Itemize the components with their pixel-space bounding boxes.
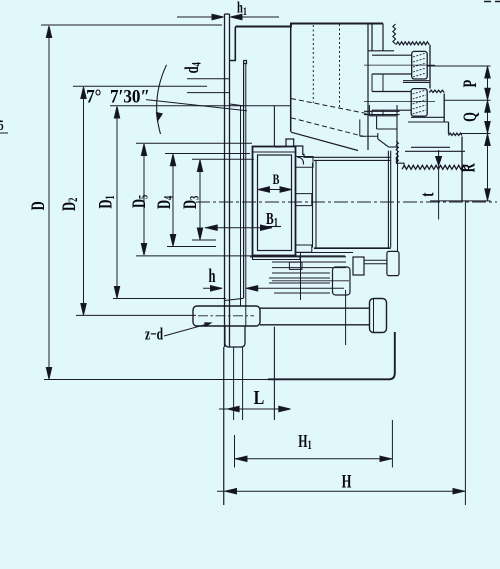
svg-text:z−d: z−d bbox=[145, 325, 163, 344]
jaw right edge step2 bbox=[443, 94, 445, 123]
angle arc arrow bbox=[155, 113, 163, 122]
svg-text:Q: Q bbox=[461, 112, 481, 122]
h1 dimension line right bbox=[231, 16, 280, 18]
svg-text:7° 7′30″: 7° 7′30″ bbox=[86, 86, 150, 107]
svg-text:D1: D1 bbox=[96, 195, 117, 208]
body rear face lower / L extension bbox=[273, 327, 275, 420]
dimension line D bbox=[48, 26, 50, 379]
bolt hole centerline bbox=[198, 315, 254, 317]
spigot line extension bbox=[233, 347, 235, 420]
L arrow left bbox=[228, 406, 240, 411]
slot wall right bbox=[315, 160, 317, 248]
jaw right edge step3 bbox=[448, 122, 450, 134]
svg-text:D2: D2 bbox=[60, 198, 81, 211]
d4 reference line bottom bbox=[187, 92, 230, 94]
jaw lower step line bbox=[411, 116, 444, 118]
screw S1 axis bbox=[364, 64, 435, 66]
body lip right bbox=[382, 24, 384, 51]
extension line D top bbox=[41, 24, 222, 26]
slot wall seg3 right bbox=[382, 110, 384, 116]
arrow D1 top bbox=[114, 107, 119, 119]
jaw step line between screws bbox=[403, 80, 429, 82]
pinion pin shaft top bbox=[364, 259, 387, 261]
svg-text:D5: D5 bbox=[130, 195, 151, 208]
extension line R bottom bbox=[430, 200, 491, 202]
scroll spring zigzag bbox=[396, 141, 398, 163]
scroll section line 4 bbox=[272, 272, 330, 274]
body front face line bbox=[397, 151, 399, 252]
jaw lower step line 2 bbox=[408, 121, 449, 123]
P arrow top bbox=[485, 67, 490, 79]
body corner edge bbox=[377, 133, 379, 139]
H dimension line bbox=[217, 490, 465, 492]
taper seat top bbox=[230, 104, 244, 106]
body wall extension bbox=[242, 347, 244, 420]
body rear notch bbox=[244, 61, 247, 64]
P arrow bottom bbox=[485, 88, 490, 100]
hidden dotted line left bbox=[312, 25, 314, 103]
body lip bottom bbox=[368, 50, 394, 52]
H extension left bbox=[223, 347, 225, 505]
jaw front face bbox=[461, 137, 463, 202]
scroll section right edge bbox=[300, 253, 302, 301]
pinion housing line bbox=[345, 290, 347, 345]
screw S2 shaft bottom bbox=[372, 109, 411, 111]
nut box top bbox=[369, 115, 397, 117]
jaw right edge upper bbox=[429, 45, 431, 89]
svg-text:B: B bbox=[273, 171, 280, 187]
h arrow right bbox=[246, 286, 258, 291]
bevel gear rear face bbox=[273, 106, 275, 147]
t dimension line bbox=[438, 150, 440, 220]
H arrow left bbox=[225, 489, 237, 494]
backplate front face bbox=[224, 14, 226, 347]
pinion pin shaft bottom bbox=[364, 263, 387, 265]
guide block outer bbox=[253, 147, 296, 256]
extension line D bottom bbox=[44, 379, 274, 381]
angle dimension arc bbox=[157, 65, 167, 134]
extension line D5 top bbox=[136, 142, 252, 144]
arrow D4 bottom bbox=[170, 235, 175, 247]
extension line D4 bottom bbox=[167, 246, 216, 248]
arrow D4 top bbox=[170, 154, 175, 166]
extension line P top bbox=[427, 65, 490, 67]
block right bump mid bbox=[296, 194, 312, 206]
arrow D5 bottom bbox=[141, 244, 146, 256]
block top tab and step bbox=[281, 139, 391, 157]
slot wall seg2 right bbox=[382, 74, 384, 92]
dimension line D3 bbox=[199, 160, 201, 240]
bolt shaft top bbox=[260, 307, 370, 309]
h arrow left bbox=[211, 286, 223, 291]
z-d leader arrow bbox=[205, 321, 212, 326]
B arrow left bbox=[258, 187, 270, 192]
screw S1 shaft top bbox=[372, 54, 412, 56]
svg-text:h: h bbox=[209, 267, 216, 287]
jaw thread step 2 bbox=[449, 133, 463, 135]
z-d leader line bbox=[164, 323, 211, 336]
body front section rear edge bbox=[290, 24, 292, 132]
jaw base top line bbox=[411, 146, 450, 148]
bevel gear rear face ledge bbox=[274, 146, 281, 148]
svg-text:D4: D4 bbox=[155, 195, 176, 209]
H1 arrow left bbox=[236, 456, 248, 461]
backplate rear face bbox=[229, 14, 231, 347]
screw S2 shaft top bbox=[372, 91, 411, 93]
bevel teeth hidden line upper bbox=[291, 99, 369, 115]
jaw slot front wall line 1 bbox=[387, 151, 389, 248]
h1 arrow right bbox=[231, 14, 243, 19]
jaw base step bbox=[396, 157, 404, 168]
arrow D3 top bbox=[197, 160, 202, 172]
extension line D1 top / taper reference bbox=[110, 105, 291, 107]
body cone lower face bbox=[291, 132, 358, 150]
arrow D5 top bbox=[141, 144, 146, 156]
Q arrow top bbox=[485, 101, 490, 113]
jaw thread step 1 bbox=[429, 90, 444, 92]
nut box divider bbox=[376, 116, 378, 129]
bolt head inner line bbox=[373, 299, 375, 333]
dimension line D1 bbox=[116, 107, 118, 299]
pinion axis line bbox=[272, 280, 349, 282]
screw S1 head bbox=[412, 51, 428, 79]
body top edge bbox=[236, 24, 383, 27]
extension line D2 bottom bbox=[76, 314, 196, 316]
pinion socket head bbox=[353, 257, 364, 275]
B arrow right bbox=[280, 187, 292, 192]
t arrow bbox=[436, 157, 442, 166]
H1 extension right bbox=[391, 420, 393, 468]
guide block inner bbox=[258, 155, 292, 251]
R arrow bottom bbox=[485, 189, 490, 201]
pinion access hole bbox=[387, 251, 399, 275]
bolt boss z-d bbox=[193, 306, 260, 326]
top edge dash 1 bbox=[484, 1, 491, 3]
serration interface bbox=[402, 165, 466, 169]
B1 underline bbox=[265, 226, 281, 228]
top edge dash 2 bbox=[495, 1, 500, 3]
Q arrow bottom bbox=[485, 122, 490, 134]
extension line D3 bottom bbox=[192, 239, 216, 241]
body rear top corner bbox=[230, 27, 236, 61]
H extension right bbox=[464, 201, 466, 505]
extension line QR bbox=[461, 133, 491, 135]
scroll key block bbox=[289, 262, 302, 269]
jaw base line 2 bbox=[364, 114, 400, 116]
scroll section line 3 bbox=[272, 267, 346, 269]
jaw slot front wall line 2 bbox=[390, 151, 392, 248]
slot wall stub bottom bbox=[360, 135, 378, 137]
h dim line left bbox=[203, 287, 222, 289]
bolt head bbox=[370, 299, 387, 333]
B1 dimension line bbox=[205, 227, 272, 229]
block bottom step bbox=[253, 256, 301, 260]
svg-text:H: H bbox=[342, 472, 352, 492]
H1 arrow right bbox=[380, 456, 392, 461]
svg-text:d4: d4 bbox=[183, 62, 204, 74]
jaw base line 1 bbox=[364, 110, 400, 112]
body corner ledge bbox=[389, 146, 397, 148]
main axis centerline bbox=[196, 201, 497, 203]
dimension line PQR bbox=[487, 66, 489, 201]
h1 arrow left bbox=[212, 14, 224, 19]
body bottom outline bbox=[268, 332, 395, 379]
arrow D2 top bbox=[81, 87, 86, 99]
block right bump top bbox=[296, 157, 314, 168]
H arrow right bbox=[453, 489, 465, 494]
arrow D2 bottom bbox=[81, 304, 86, 316]
dimension line D4 bbox=[172, 154, 174, 246]
svg-text:R: R bbox=[459, 163, 479, 173]
taper seat bottom bbox=[225, 298, 244, 300]
scroll section line 7 bbox=[274, 292, 330, 294]
arrow D top bbox=[46, 26, 51, 38]
jaw slot floor lower bbox=[314, 247, 391, 249]
slot wall stub bbox=[359, 119, 361, 136]
arrow D bottom bbox=[46, 368, 51, 380]
slot wall seg3 left bbox=[371, 110, 373, 116]
body corner chamfer bbox=[378, 139, 389, 147]
svg-text:D: D bbox=[29, 201, 49, 210]
backplate top edge bbox=[225, 13, 230, 15]
slot floor line bbox=[314, 159, 391, 161]
spigot bore line bbox=[240, 106, 242, 306]
arrow D3 bottom bbox=[197, 228, 202, 240]
block right bump bottom bbox=[296, 245, 312, 252]
extension line D2 top bbox=[73, 85, 207, 87]
guide block top wall inner line bbox=[253, 151, 296, 153]
svg-text:P: P bbox=[461, 80, 481, 88]
jaw slot inner wall bbox=[367, 24, 369, 151]
body lip left bbox=[371, 23, 373, 51]
screw S1 shaft bottom bbox=[372, 73, 412, 75]
extension line PQ bbox=[444, 99, 490, 101]
H1 dimension line bbox=[235, 458, 393, 460]
slot hook bbox=[298, 157, 304, 164]
H1 extension left bbox=[234, 435, 236, 468]
L dimension line bbox=[219, 408, 291, 410]
extension line D3 top bbox=[192, 158, 254, 160]
jaw step line 2 bbox=[403, 82, 429, 84]
screw S1 hatch bbox=[413, 53, 426, 77]
scroll section line 1 bbox=[250, 256, 346, 258]
recess wall second line bbox=[245, 64, 247, 327]
svg-text:L: L bbox=[254, 386, 265, 408]
scroll section line 2 bbox=[272, 261, 346, 263]
bevel teeth hidden line lower bbox=[291, 118, 364, 137]
R arrow top bbox=[485, 134, 490, 146]
scroll section line 5 bbox=[269, 277, 330, 279]
B1 arrow left bbox=[206, 225, 218, 230]
screw S2 axis bbox=[364, 100, 435, 102]
jaw serration top bbox=[396, 42, 429, 45]
edge fragment underline bbox=[0, 132, 8, 134]
nut box left bbox=[368, 105, 370, 116]
bolt shaft bottom bbox=[260, 324, 370, 326]
svg-text:5: 5 bbox=[0, 117, 4, 133]
extension line D1 bottom bbox=[113, 298, 226, 300]
B dimension line bbox=[258, 189, 292, 191]
extension line D5 bottom bbox=[136, 255, 345, 257]
slot wall left bbox=[312, 163, 314, 248]
dimension line D2 bbox=[83, 87, 85, 315]
scroll section line 6 bbox=[269, 282, 330, 284]
pinion boss bbox=[333, 267, 351, 295]
hidden dotted line right bbox=[339, 24, 341, 108]
slot floor lower second line bbox=[296, 252, 353, 254]
h1 dimension line left bbox=[177, 16, 224, 18]
svg-text:H1: H1 bbox=[298, 433, 312, 453]
nut box bottom bbox=[377, 128, 397, 130]
svg-text:t: t bbox=[418, 192, 438, 197]
slot wall seg2 left bbox=[371, 74, 373, 92]
nut box right wall bbox=[396, 105, 398, 151]
arrow D1 bottom bbox=[114, 287, 119, 299]
dimension line D5 bbox=[143, 144, 145, 255]
L arrow right bbox=[279, 406, 291, 411]
extension line D4 top bbox=[165, 153, 250, 155]
screw S2 hatch bbox=[413, 90, 427, 114]
B1 arrow right bbox=[261, 225, 273, 230]
d4 reference line top bbox=[187, 78, 230, 80]
guide top line bbox=[405, 150, 465, 152]
flange foot bbox=[225, 326, 245, 347]
screw S2 head bbox=[411, 89, 427, 117]
h dim line right bbox=[246, 287, 344, 289]
body recess wall bbox=[243, 61, 245, 299]
taper slant line 7deg bbox=[146, 100, 247, 111]
